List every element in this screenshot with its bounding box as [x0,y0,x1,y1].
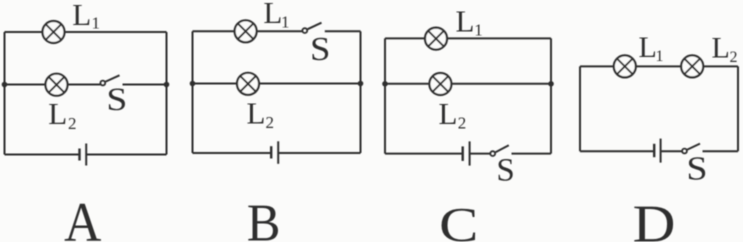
circuit B top wire left segment [193,30,303,32]
circuit B middle wire [193,83,361,85]
circuit C frame: right vertical wire [550,38,552,153]
circuit D frame: right vertical wire [737,66,739,151]
svg-text:2: 2 [266,113,275,132]
circuit A middle wire right segment [123,84,167,86]
battery cell of circuit C: short negative plate [462,146,464,161]
circuit D top wire [580,65,738,67]
svg-text:S: S [106,80,127,117]
switch S of circuit C: lever arm [496,145,509,152]
svg-text:L: L [247,95,266,130]
circuit A frame: left vertical wire [4,32,6,155]
battery cell of circuit B: short negative plate [270,146,272,158]
svg-text:C: C [439,198,478,242]
circuit B bottom wire right segment [278,152,360,154]
svg-text:S: S [310,29,330,67]
svg-text:L: L [48,96,67,131]
svg-text:S: S [496,152,514,188]
svg-text:2: 2 [730,49,738,66]
lamp L1 of circuit C [425,28,447,50]
svg-text:1: 1 [474,21,483,40]
junction node left of circuit C middle wire [382,81,388,87]
switch S of circuit B: lever arm [308,23,322,30]
circuit A bottom wire right segment [86,154,166,156]
circuit C middle wire [385,83,551,85]
circuit D bottom wire left segment [580,150,654,152]
svg-text:1: 1 [92,14,101,33]
svg-text:2: 2 [68,114,77,133]
svg-text:2: 2 [458,114,467,133]
lamp L2 of circuit D [681,55,703,77]
battery cell of circuit A: short negative plate [78,149,80,161]
battery cell of circuit D: long positive plate [660,139,662,163]
lamp L1 of circuit A [43,21,65,43]
svg-text:A: A [64,191,101,242]
switch S of circuit A: pivot circle [100,81,105,86]
svg-text:L: L [712,32,730,65]
junction node right of circuit B middle wire [358,81,364,87]
circuit B bottom wire left segment [193,152,272,154]
lamp L2 of circuit C [429,73,451,95]
switch S of circuit D: lever arm [687,144,700,150]
battery cell of circuit A: long positive plate [85,144,87,166]
lamp L2 of circuit A [46,74,68,96]
svg-text:L: L [439,96,458,131]
circuit C bottom wire middle segment [470,153,491,155]
svg-text:1: 1 [656,48,664,65]
switch S of circuit C: pivot circle [490,151,495,156]
circuit B frame: left vertical wire [192,31,194,153]
circuit D frame: left vertical wire [579,66,581,151]
circuit A bottom wire left segment [5,154,80,156]
svg-text:L: L [263,0,282,30]
junction node left of circuit B middle wire [190,81,196,87]
svg-text:L: L [72,0,91,32]
circuit A middle wire left segment [5,84,101,86]
lamp L2 of circuit B [237,73,259,95]
lamp L1 of circuit B [235,20,257,42]
junction node left of circuit A middle wire [2,82,8,88]
junction node right of circuit A middle wire [164,82,170,88]
circuit D bottom wire middle segment [661,150,683,152]
junction node right of circuit C middle wire [548,81,554,87]
circuit D bottom wire right segment [703,150,739,152]
circuit A top wire [5,31,167,33]
switch S of circuit B: pivot circle [302,28,307,33]
lamp L1 of circuit D [614,55,636,77]
circuit A frame: right vertical wire [166,32,168,155]
battery cell of circuit C: long positive plate [469,141,471,165]
circuit C top wire [385,37,551,39]
circuit B top wire right segment [325,30,361,32]
svg-text:L: L [639,31,657,64]
switch S of circuit D: pivot circle [682,149,687,154]
switch S of circuit A: lever arm [106,75,120,81]
circuit C frame: left vertical wire [384,38,386,153]
circuit C bottom wire right segment [512,153,552,155]
svg-text:D: D [633,195,676,242]
svg-text:1: 1 [281,12,290,31]
circuit B frame: right vertical wire [360,31,362,153]
battery cell of circuit D: short negative plate [653,144,655,157]
svg-text:B: B [247,194,281,242]
svg-text:L: L [456,4,475,39]
svg-text:S: S [686,149,707,187]
battery cell of circuit B: long positive plate [277,141,279,164]
circuit C bottom wire left segment [385,153,463,155]
